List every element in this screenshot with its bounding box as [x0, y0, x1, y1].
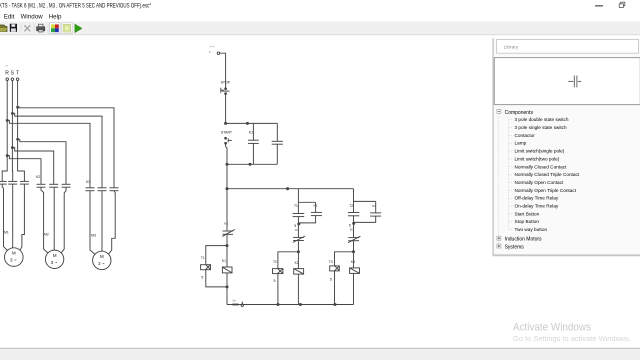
motor M2	[45, 250, 63, 268]
wire to T1 coil branch	[206, 246, 227, 265]
toolbar icon: pale square (framed)	[62, 23, 73, 34]
node K2 parallel rejoin	[298, 223, 300, 225]
svg-text:3 ~: 3 ~	[98, 261, 105, 266]
svg-text:5: 5	[330, 277, 332, 281]
svg-text:R: R	[5, 70, 9, 76]
svg-text:T2: T2	[273, 260, 277, 264]
svg-text:R: R	[209, 50, 211, 54]
node tap R to K2	[6, 155, 8, 157]
svg-text:Induction Motors: Induction Motors	[505, 237, 542, 243]
preview contact symbol	[568, 76, 581, 88]
status bar	[0, 348, 640, 349]
contactor K3 main contacts	[86, 188, 119, 191]
wire K2 pole2 to motor M2	[53, 187, 56, 250]
toolbar separator	[47, 24, 50, 33]
svg-text:Window: Window	[21, 14, 44, 21]
restore button	[619, 2, 625, 7]
contact aux NO (latch right)	[272, 123, 283, 164]
wire to T3 coil branch	[335, 252, 354, 266]
wire K2 pole3 to motor M2	[61, 187, 66, 253]
wire K1 pole1 to motor M1	[2, 184, 7, 251]
node latch bottom left	[226, 163, 228, 165]
svg-text:K3: K3	[86, 180, 90, 184]
node tap R to K3	[6, 119, 8, 121]
svg-text:Activate Windows: Activate Windows	[513, 322, 591, 334]
wire K3 pole1 to motor M3	[90, 191, 95, 254]
panel background	[493, 38, 640, 255]
motor M1	[5, 248, 24, 267]
wire latch top line	[226, 122, 278, 124]
neutral terminal Mp	[232, 299, 243, 307]
svg-text:M: M	[12, 251, 16, 256]
svg-text:Library: Library	[504, 44, 519, 50]
wire K2 pole1 to motor M2	[41, 187, 48, 253]
svg-text:STOP: STOP	[221, 80, 231, 84]
wire tap S to K2 pole2	[12, 148, 53, 185]
start button S1 (NO)	[225, 137, 232, 144]
motor M3	[93, 251, 111, 269]
wire T trunk	[18, 81, 25, 182]
toolbar separator	[33, 24, 36, 33]
node K1 branch rejoin	[226, 286, 228, 288]
node bus K2	[299, 303, 301, 305]
svg-text:5: 5	[201, 275, 203, 279]
svg-text:Lamp: Lamp	[515, 141, 527, 146]
node bus T2	[277, 303, 279, 305]
contact T1 NO (timed)	[293, 202, 305, 223]
svg-text:T1: T1	[294, 204, 298, 208]
svg-text:T1: T1	[201, 256, 205, 260]
svg-text:T3: T3	[329, 260, 333, 264]
wire T3 branch to bus	[334, 271, 336, 305]
svg-text:Normally Open Triple Contact: Normally Open Triple Contact	[515, 188, 577, 193]
node latch top K1	[246, 122, 248, 124]
node latch top	[225, 122, 227, 124]
contact K2 NC in K1 branch	[222, 189, 234, 246]
wire latch bottom line	[227, 163, 277, 165]
wire T2 branch to bus	[277, 274, 279, 305]
svg-text:K3: K3	[351, 260, 355, 264]
toolbar icon: play	[75, 24, 82, 32]
wire S trunk	[11, 81, 13, 182]
toolbar icon: printer	[37, 24, 45, 32]
wire tap T to K3 pole3	[18, 107, 114, 188]
wire K3 pole3 to motor M3	[109, 191, 115, 254]
svg-text:Mp: Mp	[233, 299, 237, 303]
svg-text:5: 5	[274, 279, 276, 283]
contact K3 aux NO	[354, 201, 382, 222]
svg-text:KTS - TASK 6 (M1 , M2 , M3 , O: KTS - TASK 6 (M1 , M2 , M3 , ON AFTER 5 …	[0, 3, 151, 10]
contactor K1 main contacts	[0, 181, 29, 184]
svg-text:Limit switch(two pole): Limit switch(two pole)	[515, 156, 560, 161]
wire K2 branch drop	[297, 189, 299, 203]
node distribution	[226, 188, 228, 190]
node distribution mid	[287, 188, 289, 190]
svg-text:Start Button: Start Button	[515, 211, 540, 216]
toolbar separator	[20, 24, 23, 33]
node K1 branch split	[226, 245, 228, 247]
svg-text:T: T	[16, 70, 19, 76]
svg-text:M: M	[100, 254, 104, 259]
toolbar icon: save floppy	[10, 24, 17, 32]
wire start to latch bottom	[226, 143, 227, 188]
wire K1 pole3 to motor M1	[20, 184, 24, 250]
preview box	[494, 58, 640, 105]
contact K1 NC in K3 branch	[348, 222, 360, 251]
timer coil T2	[273, 269, 283, 274]
svg-text:Stop Button: Stop Button	[515, 219, 540, 224]
node latch bottom K1	[249, 163, 251, 165]
svg-text:Normally Open Contact: Normally Open Contact	[515, 180, 564, 185]
node tap T to K3	[17, 106, 19, 108]
toolbar icon: colors (framed)	[49, 23, 60, 34]
wire K1 pole2 to motor M1	[12, 184, 14, 248]
minimize button	[595, 5, 603, 6]
wire distribution line	[227, 188, 354, 190]
svg-text:Normally Closed Contact: Normally Closed Contact	[515, 164, 568, 169]
svg-text:Systems: Systems	[505, 244, 525, 250]
svg-text:3 pole single state switch: 3 pole single state switch	[515, 125, 568, 130]
wire tap S to K3 pole2	[12, 113, 102, 187]
svg-text:M3: M3	[91, 234, 96, 238]
svg-text:Contactor: Contactor	[515, 133, 536, 138]
wire R trunk	[2, 81, 7, 182]
svg-text:Off-delay Time Relay: Off-delay Time Relay	[515, 196, 559, 201]
svg-text:3 pole double state switch: 3 pole double state switch	[515, 117, 569, 122]
wire K3 pole2 to motor M3	[101, 191, 103, 252]
svg-text:On-delay Time Relay: On-delay Time Relay	[515, 204, 559, 209]
terminal R	[6, 78, 9, 81]
wire tap R to K3 pole1	[7, 120, 90, 187]
contact K1 aux NO (latch)	[248, 123, 259, 164]
svg-text:T2: T2	[349, 204, 353, 208]
node K3 branch split	[352, 251, 354, 253]
svg-text:M1: M1	[4, 230, 9, 234]
svg-text:3 ~: 3 ~	[51, 260, 58, 265]
contactor K2 main contacts	[37, 184, 71, 187]
svg-text:Components: Components	[505, 110, 534, 116]
node bus T3	[334, 303, 336, 305]
svg-text:Normally Closed Triple Contact: Normally Closed Triple Contact	[515, 172, 580, 177]
svg-text:Go to Settings to activate Win: Go to Settings to activate Windows.	[513, 334, 631, 343]
wire terminal to trunk	[220, 53, 226, 88]
phase labels R S T	[5, 70, 19, 76]
toolbar icon: delete X	[24, 25, 30, 31]
svg-text:Two way button: Two way button	[515, 227, 548, 232]
contactor coil K1	[222, 246, 232, 305]
wire K3 branch top split	[354, 200, 376, 202]
wire tap T to K2 pole3	[18, 139, 66, 184]
svg-text:K2: K2	[36, 175, 40, 179]
svg-text:K2: K2	[224, 222, 228, 226]
svg-text:Limit switch(single pole): Limit switch(single pole)	[515, 149, 565, 154]
timer coil T3	[330, 266, 340, 271]
node tap T to K2	[17, 138, 19, 140]
terminal T	[16, 78, 19, 81]
wire neutral bus	[227, 304, 354, 306]
wire K3 branch drop	[353, 189, 355, 202]
svg-text:Help: Help	[49, 14, 62, 21]
contact K3 NC in K2 branch	[293, 223, 305, 252]
wire to T2 coil branch	[278, 252, 299, 269]
contactor coil K2	[294, 252, 304, 305]
control phase terminal	[217, 52, 220, 55]
svg-text:M: M	[53, 253, 57, 258]
toolbar band	[0, 22, 640, 36]
toolbar icon: open folder	[0, 25, 7, 32]
node tap S to K2	[11, 147, 13, 149]
contact K2 aux NO	[298, 202, 322, 223]
ghost mark above R	[5, 65, 8, 66]
terminal S	[11, 78, 14, 81]
svg-text:3 ~: 3 ~	[10, 258, 17, 263]
timer coil T1	[201, 265, 211, 270]
contact T2 NO (timed)	[348, 201, 359, 222]
tree	[497, 109, 580, 250]
svg-text:K1: K1	[249, 130, 253, 134]
wire T1 branch rejoin	[206, 270, 227, 287]
svg-text:K1: K1	[222, 259, 226, 263]
wire K2 branch top split	[298, 201, 315, 203]
node K2 branch split	[297, 251, 299, 253]
stop button S0 (NC)	[221, 88, 230, 95]
wire tap R to K2 pole1	[7, 156, 41, 185]
Library header box	[497, 39, 639, 53]
svg-text:M2: M2	[44, 233, 49, 237]
wire stop to latch node	[225, 94, 227, 123]
node K3 parallel rejoin	[353, 222, 355, 224]
ghost mark near control terminal	[209, 46, 215, 47]
contactor coil K3	[350, 252, 360, 305]
svg-text:START: START	[221, 130, 233, 134]
node tap S to K3	[11, 112, 13, 114]
svg-text:Edit: Edit	[4, 14, 15, 21]
